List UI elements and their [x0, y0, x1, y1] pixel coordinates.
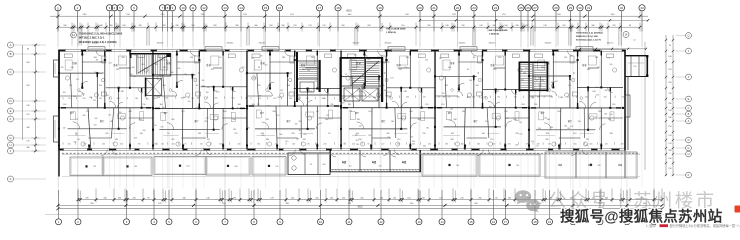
svg-text:140: 140	[391, 121, 394, 123]
svg-text:160: 160	[622, 97, 625, 99]
svg-text:G: G	[687, 146, 689, 150]
svg-text:220: 220	[418, 88, 421, 90]
red marker right edge	[735, 206, 740, 213]
svg-text:C: C	[688, 106, 690, 110]
scattered tiny dimension texts	[61, 54, 613, 147]
svg-text:290: 290	[184, 74, 187, 76]
svg-text:220: 220	[273, 98, 276, 100]
svg-text:280: 280	[311, 57, 314, 59]
svg-text:150: 150	[404, 67, 407, 69]
top bay windows	[88, 47, 593, 51]
svg-text:110: 110	[86, 111, 89, 113]
svg-text:90: 90	[275, 143, 277, 145]
svg-text:350: 350	[303, 134, 306, 136]
svg-text:80: 80	[96, 59, 98, 61]
svg-text:330: 330	[597, 165, 600, 167]
svg-text:350: 350	[341, 103, 344, 105]
svg-text:290: 290	[358, 139, 361, 141]
svg-text:310: 310	[119, 112, 122, 114]
svg-text:260: 260	[559, 143, 562, 145]
svg-text:120: 120	[68, 98, 71, 100]
svg-text:240: 240	[404, 91, 407, 93]
svg-text:24: 24	[494, 6, 498, 10]
svg-text:330: 330	[267, 106, 270, 108]
note block top-right	[419, 19, 649, 41]
svg-text:220: 220	[306, 98, 309, 100]
svg-text:240: 240	[289, 98, 292, 100]
svg-text:150: 150	[142, 104, 145, 106]
svg-text:220: 220	[594, 117, 597, 119]
svg-text:240: 240	[425, 60, 428, 62]
svg-text:290: 290	[356, 144, 359, 146]
svg-text:90: 90	[258, 67, 260, 69]
svg-text:300: 300	[412, 143, 415, 145]
svg-text:240: 240	[198, 133, 201, 135]
svg-text:150: 150	[515, 145, 518, 147]
svg-text:15: 15	[264, 6, 268, 10]
svg-text:350: 350	[202, 85, 205, 87]
svg-text:33: 33	[640, 6, 644, 10]
svg-text:200: 200	[469, 80, 472, 82]
svg-text:110: 110	[564, 57, 567, 59]
svg-text:250: 250	[521, 80, 524, 82]
svg-text:100: 100	[163, 85, 166, 87]
svg-text:330: 330	[272, 111, 275, 113]
svg-text:110: 110	[349, 166, 352, 168]
svg-text:280: 280	[668, 103, 671, 105]
right dimension lines	[645, 35, 674, 176]
svg-text:140: 140	[384, 90, 387, 92]
svg-text:MK 1C2A1B 300M: MK 1C2A1B 300M	[489, 29, 508, 32]
svg-text:90-9100(C2.2)(1-1.2) 170: 90-9100(C2.2)(1-1.2) 170	[576, 40, 602, 42]
svg-text:250: 250	[264, 64, 267, 66]
svg-text:280: 280	[450, 139, 453, 141]
svg-text:260: 260	[547, 119, 550, 121]
svg-text:110: 110	[516, 165, 519, 167]
svg-text:220: 220	[99, 98, 102, 100]
svg-text:120: 120	[275, 166, 278, 168]
svg-text:280: 280	[604, 113, 607, 115]
svg-text:120: 120	[441, 104, 444, 106]
svg-text:750X1600(C 2.2), 600+610(C2.2): 750X1600(C 2.2), 600+610(C2.2)X60	[79, 32, 123, 36]
svg-text:19: 19	[378, 6, 382, 10]
svg-text:290: 290	[161, 126, 164, 128]
svg-text:120: 120	[381, 143, 384, 145]
svg-text:110: 110	[211, 69, 214, 71]
svg-text:340: 340	[261, 135, 264, 137]
svg-text:340: 340	[197, 97, 200, 99]
svg-text:200: 200	[102, 143, 105, 145]
svg-text:130: 130	[69, 85, 72, 87]
svg-text:280: 280	[545, 139, 548, 141]
svg-text:250: 250	[242, 67, 245, 69]
svg-text:300: 300	[314, 81, 317, 83]
svg-text:90: 90	[167, 133, 169, 135]
svg-text:240: 240	[668, 56, 671, 58]
svg-text:260: 260	[356, 67, 359, 69]
svg-text:330: 330	[498, 57, 501, 59]
svg-text:120: 120	[544, 118, 547, 120]
svg-text:260: 260	[585, 145, 588, 147]
svg-text:250: 250	[324, 143, 327, 145]
svg-text:100: 100	[595, 87, 598, 89]
svg-text:280: 280	[247, 128, 250, 130]
svg-text:200: 200	[504, 111, 507, 113]
svg-text:MQ170: MQ170	[607, 43, 614, 45]
svg-text:H: H	[9, 143, 11, 147]
svg-text:90: 90	[536, 145, 538, 147]
left dimension lines	[23, 44, 40, 153]
svg-text:240: 240	[63, 127, 66, 129]
svg-text:YKL 1C2A1B 380M: YKL 1C2A1B 380M	[386, 28, 406, 31]
svg-text:290: 290	[567, 128, 570, 130]
svg-text:280: 280	[445, 143, 448, 145]
svg-text:170: 170	[497, 97, 500, 99]
svg-text:110: 110	[531, 98, 534, 100]
svg-text:MQ330: MQ330	[545, 43, 552, 45]
svg-text:110: 110	[568, 85, 571, 87]
svg-text:150: 150	[61, 67, 64, 69]
svg-text:240: 240	[71, 67, 74, 69]
svg-text:17: 17	[504, 220, 508, 224]
svg-text:110: 110	[236, 108, 239, 110]
svg-text:240: 240	[323, 164, 326, 166]
svg-text:13: 13	[223, 6, 227, 10]
bottom-right tiny note	[646, 223, 740, 228]
svg-text:280: 280	[537, 97, 540, 99]
svg-text:240: 240	[165, 97, 168, 99]
svg-text:300: 300	[461, 143, 464, 145]
svg-text:1,500(0.9): 1,500(0.9)	[489, 33, 499, 35]
svg-text:110: 110	[397, 139, 400, 141]
svg-text:22: 22	[456, 6, 460, 10]
svg-text:350: 350	[257, 143, 260, 145]
svg-text:K: K	[688, 173, 690, 177]
svg-text:280: 280	[445, 85, 448, 87]
svg-text:16: 16	[278, 6, 282, 10]
svg-text:300: 300	[191, 98, 194, 100]
svg-text:90: 90	[75, 134, 77, 136]
svg-text:110: 110	[570, 126, 573, 128]
svg-text:卫: 卫	[573, 72, 575, 75]
svg-text:120: 120	[633, 66, 636, 68]
svg-text:160: 160	[493, 69, 496, 71]
svg-text:110: 110	[608, 119, 611, 121]
svg-text:1. 图中: 1. 图中	[646, 223, 656, 228]
svg-text:200: 200	[280, 90, 283, 92]
svg-text:150: 150	[349, 110, 352, 112]
svg-text:310: 310	[129, 111, 132, 113]
svg-text:280: 280	[472, 97, 475, 99]
svg-text:80: 80	[316, 111, 318, 113]
svg-text:200: 200	[68, 143, 71, 145]
svg-text:240: 240	[621, 143, 624, 145]
svg-text:330: 330	[357, 119, 360, 121]
svg-text:130: 130	[231, 97, 234, 99]
svg-text:140: 140	[140, 133, 143, 135]
svg-text:160: 160	[207, 139, 210, 141]
svg-text:250: 250	[83, 98, 86, 100]
svg-text:280: 280	[477, 143, 480, 145]
svg-text:240: 240	[141, 64, 144, 66]
svg-text:16: 16	[492, 220, 496, 224]
svg-text:30: 30	[578, 6, 582, 10]
terrace underline	[62, 176, 640, 178]
svg-text:90: 90	[196, 85, 198, 87]
svg-text:350: 350	[538, 128, 541, 130]
svg-text:290: 290	[351, 97, 354, 99]
svg-text:90: 90	[669, 45, 671, 47]
elevator left	[145, 78, 162, 97]
svg-text:140: 140	[177, 68, 180, 70]
svg-text:140: 140	[251, 58, 254, 60]
svg-text:350: 350	[573, 133, 576, 135]
svg-text:MQ260: MQ260	[157, 43, 164, 45]
svg-text:250: 250	[597, 67, 600, 69]
svg-text:10: 10	[181, 6, 185, 10]
svg-text:250: 250	[161, 143, 164, 145]
svg-text:130: 130	[519, 122, 522, 124]
svg-text:340: 340	[406, 57, 409, 59]
svg-text:120: 120	[496, 91, 499, 93]
svg-text:120: 120	[605, 143, 608, 145]
svg-text:150: 150	[422, 133, 425, 135]
svg-text:200: 200	[215, 97, 218, 99]
svg-text:120: 120	[216, 92, 219, 94]
svg-text:120: 120	[368, 111, 371, 113]
svg-text:240: 240	[592, 91, 595, 93]
svg-text:100: 100	[513, 119, 516, 121]
svg-text:90: 90	[155, 125, 157, 127]
note block top-left	[71, 32, 123, 44]
right edge lower strip	[625, 77, 630, 150]
svg-text:G: G	[9, 136, 11, 140]
svg-text:E: E	[10, 109, 12, 113]
svg-text:240: 240	[546, 133, 549, 135]
unit interior walls	[58, 51, 625, 150]
svg-text:120: 120	[514, 97, 517, 99]
svg-text:卫: 卫	[477, 72, 479, 75]
svg-text:200: 200	[115, 139, 118, 141]
top dimension chain fine	[57, 23, 642, 46]
svg-text:17: 17	[318, 6, 322, 10]
svg-text:220: 220	[82, 93, 85, 95]
svg-text:150: 150	[108, 114, 111, 116]
svg-text:80: 80	[443, 97, 445, 99]
svg-text:搜狐号@搜狐焦点苏州站: 搜狐号@搜狐焦点苏州站	[560, 207, 723, 225]
svg-text:130: 130	[73, 96, 76, 98]
stair core right	[519, 62, 549, 92]
svg-text:12: 12	[379, 220, 383, 224]
svg-text:29: 29	[569, 6, 573, 10]
svg-text:350: 350	[299, 121, 302, 123]
svg-text:240: 240	[525, 68, 528, 70]
svg-text:340: 340	[237, 104, 240, 106]
svg-text:12: 12	[202, 6, 206, 10]
svg-text:200: 200	[456, 165, 459, 167]
svg-text:MQ300: MQ300	[459, 43, 466, 45]
svg-text:160: 160	[489, 106, 492, 108]
svg-text:C: C	[9, 70, 11, 74]
svg-text:10: 10	[319, 220, 323, 224]
svg-text:80: 80	[118, 87, 120, 89]
svg-text:170: 170	[607, 57, 610, 59]
svg-text:240: 240	[450, 108, 453, 110]
svg-text:160: 160	[223, 111, 226, 113]
svg-text:100: 100	[457, 97, 460, 99]
svg-text:90: 90	[219, 57, 221, 59]
svg-text:140: 140	[159, 75, 162, 77]
svg-text:90: 90	[368, 143, 370, 145]
svg-text:160: 160	[232, 119, 235, 121]
svg-text:9620: 9620	[357, 207, 363, 209]
svg-text:120: 120	[94, 124, 97, 126]
svg-text:100: 100	[172, 143, 175, 145]
svg-text:250: 250	[534, 104, 537, 106]
svg-text:280: 280	[282, 57, 285, 59]
svg-text:350: 350	[557, 111, 560, 113]
svg-text:100: 100	[508, 143, 511, 145]
terrace rectangles	[62, 152, 640, 178]
svg-text:90715(C 2.0)(C 2.1)-1: 90715(C 2.0)(C 2.1)-1	[79, 36, 105, 40]
svg-text:220: 220	[668, 69, 671, 71]
svg-text:B: B	[688, 112, 690, 116]
svg-text:120: 120	[390, 77, 393, 79]
svg-text:140: 140	[448, 67, 451, 69]
svg-text:110: 110	[355, 140, 358, 142]
lower annex rooms left of garage	[288, 153, 330, 175]
svg-text:170: 170	[277, 115, 280, 117]
svg-text:330: 330	[451, 133, 454, 135]
svg-text:300: 300	[412, 141, 415, 143]
svg-text:120: 120	[668, 135, 671, 137]
svg-text:220: 220	[206, 117, 209, 119]
svg-text:280: 280	[668, 117, 671, 119]
svg-text:240: 240	[292, 143, 295, 145]
svg-text:100: 100	[132, 67, 135, 69]
svg-text:290: 290	[133, 76, 136, 78]
bottom overall dimension	[45, 207, 695, 215]
svg-text:MQ260: MQ260	[92, 43, 99, 45]
bottom dimension chain fine	[77, 189, 664, 203]
svg-text:25: 25	[519, 6, 523, 10]
svg-text:280: 280	[266, 139, 269, 141]
svg-text:23: 23	[472, 6, 476, 10]
svg-text:240: 240	[100, 61, 103, 63]
svg-text:250: 250	[428, 143, 431, 145]
svg-text:290: 290	[515, 133, 518, 135]
svg-text:13: 13	[417, 220, 421, 224]
svg-text:130: 130	[595, 57, 598, 59]
svg-text:300: 300	[63, 92, 66, 94]
svg-text:170: 170	[75, 119, 78, 121]
svg-text:90: 90	[328, 133, 330, 135]
top grid bubbles	[55, 5, 645, 11]
svg-text:280: 280	[259, 96, 262, 98]
grid lines	[58, 12, 654, 219]
svg-text:340: 340	[587, 69, 590, 71]
svg-text:100: 100	[482, 133, 485, 135]
svg-text:170: 170	[260, 56, 263, 58]
svg-text:11: 11	[348, 220, 351, 224]
svg-text:330: 330	[423, 145, 426, 147]
svg-text:80: 80	[473, 57, 475, 59]
svg-text:220: 220	[307, 70, 310, 72]
svg-text:140: 140	[183, 97, 186, 99]
svg-text:120: 120	[585, 97, 588, 99]
svg-text:19: 19	[548, 220, 552, 224]
top wall labels	[92, 28, 614, 45]
svg-text:310: 310	[668, 93, 671, 95]
right wing (top-right protrusion)	[579, 48, 649, 77]
svg-text:220: 220	[204, 121, 207, 123]
svg-text:220: 220	[330, 104, 333, 106]
svg-text:MQ260: MQ260	[259, 43, 266, 45]
svg-text:350: 350	[322, 98, 325, 100]
svg-text:160: 160	[303, 139, 306, 141]
svg-text:240: 240	[609, 64, 612, 66]
svg-text:170: 170	[234, 133, 237, 135]
svg-text:290: 290	[386, 133, 389, 135]
svg-text:260: 260	[279, 134, 282, 136]
svg-text:250: 250	[139, 119, 142, 121]
svg-text:160: 160	[157, 97, 160, 99]
bottom dimension chain major	[57, 203, 664, 207]
svg-text:公众号 | 苏州楼市: 公众号 | 苏州楼市	[548, 190, 717, 211]
svg-text:170: 170	[548, 143, 551, 145]
svg-text:310: 310	[120, 143, 123, 145]
svg-text:260: 260	[550, 97, 553, 99]
svg-text:340: 340	[73, 141, 76, 143]
svg-text:250: 250	[668, 168, 671, 170]
svg-text:110: 110	[76, 79, 79, 81]
svg-text:200: 200	[385, 95, 388, 97]
svg-text:260: 260	[418, 119, 421, 121]
svg-text:18: 18	[345, 74, 347, 76]
svg-text:100: 100	[668, 110, 671, 112]
svg-text:K: K	[10, 177, 12, 181]
svg-text:250: 250	[410, 137, 413, 139]
svg-text:290: 290	[277, 97, 280, 99]
svg-text:260: 260	[206, 92, 209, 94]
svg-text:E: E	[688, 97, 690, 101]
svg-text:32: 32	[620, 6, 624, 10]
svg-text:160: 160	[668, 158, 671, 160]
svg-text:340: 340	[146, 99, 149, 101]
svg-text:300: 300	[605, 90, 608, 92]
svg-text:100: 100	[252, 104, 255, 106]
bottom grid bubbles	[56, 219, 658, 225]
svg-text:110: 110	[578, 121, 581, 123]
left grid bubbles	[8, 42, 47, 182]
svg-text:21: 21	[432, 6, 436, 10]
dashed strip below bottom wall	[62, 152, 640, 154]
svg-text:Q: Q	[687, 34, 689, 38]
svg-text:150: 150	[190, 57, 193, 59]
svg-text:160: 160	[388, 97, 391, 99]
svg-text:110: 110	[467, 97, 470, 99]
svg-text:卫: 卫	[198, 72, 200, 75]
svg-text:260: 260	[406, 97, 409, 99]
svg-text:260: 260	[171, 119, 174, 121]
central core stair	[340, 57, 384, 102]
svg-text:260: 260	[668, 150, 671, 152]
svg-text:160: 160	[295, 123, 298, 125]
svg-text:300: 300	[160, 104, 163, 106]
svg-text:260: 260	[94, 72, 97, 74]
svg-text:250: 250	[367, 59, 370, 61]
svg-text:340: 340	[238, 143, 241, 145]
